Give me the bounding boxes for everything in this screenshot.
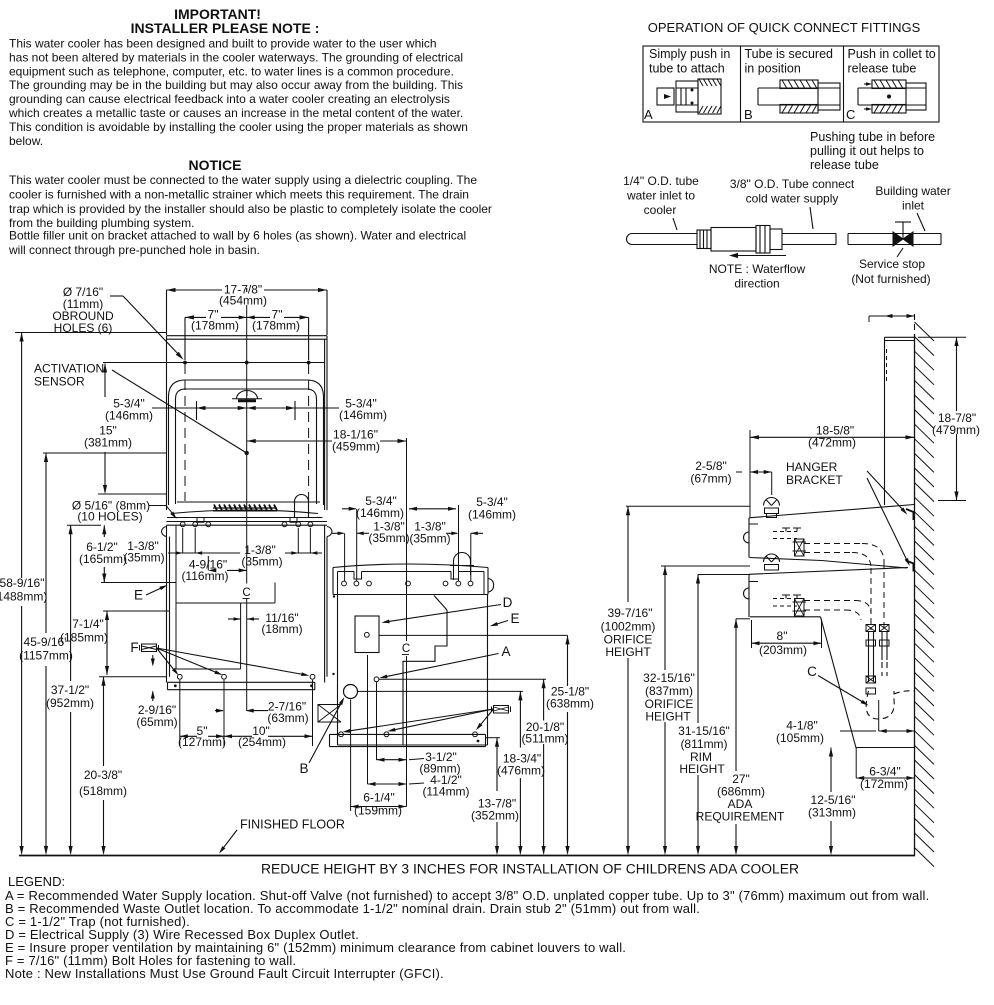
dim 6-1/2 (165mm) <box>103 525 105 537</box>
waterflow direction arrow <box>734 255 786 257</box>
svg-text:8": 8" <box>777 629 788 643</box>
ext line front bottom corner <box>751 620 753 648</box>
svg-text:Service stop: Service stop <box>859 257 925 271</box>
ext from drain B down <box>350 700 352 812</box>
hole centerline dashed right <box>308 364 310 501</box>
dim 18-5/8 (472mm) <box>750 436 915 438</box>
svg-text:(Not furnished): (Not furnished) <box>851 272 930 286</box>
svg-text:39-7/16": 39-7/16" <box>608 606 653 620</box>
leaders from F right to plate holes <box>345 709 494 732</box>
svg-text:REQUIREMENT: REQUIREMENT <box>696 810 785 824</box>
dim 37-1/2 (952mm) <box>70 525 72 681</box>
svg-text:(35mm): (35mm) <box>123 551 164 565</box>
panel outline <box>167 335 328 337</box>
lower unit tubing dashed <box>804 600 855 602</box>
bracket holes bottle filler <box>177 674 182 679</box>
dim 3-1/2 (89mm) <box>377 759 407 761</box>
dim 31-15/16 rim height <box>697 575 699 724</box>
dim 1-3/8 cooler left pair <box>332 532 344 534</box>
svg-text:LEGEND:: LEGEND: <box>8 874 65 889</box>
svg-text:OPERATION OF QUICK CONNECT FIT: OPERATION OF QUICK CONNECT FITTINGS <box>648 20 921 35</box>
upper unit tubing dashed <box>804 543 862 545</box>
svg-text:(352mm): (352mm) <box>471 809 519 823</box>
drain shelf line <box>856 747 914 749</box>
drain outlet B circle <box>344 685 358 699</box>
svg-text:inlet: inlet <box>902 199 925 213</box>
ext drain pipe down <box>878 700 880 731</box>
svg-text:NOTE : Waterflow: NOTE : Waterflow <box>709 262 806 276</box>
dim 11/16 (18mm) <box>228 618 241 620</box>
svg-text:(837mm): (837mm) <box>645 684 693 698</box>
svg-text:Simply push in: Simply push in <box>649 47 730 61</box>
dim 20-1/8 (511mm) <box>543 679 545 720</box>
dim 15 inch (381mm) <box>104 364 106 398</box>
svg-text:(811mm): (811mm) <box>680 737 727 751</box>
dim 4-1/8 (105mm) <box>879 730 915 732</box>
dim 1-3/8 cooler right pair <box>446 532 457 534</box>
svg-text:Building water: Building water <box>875 184 950 198</box>
ext line ada <box>736 618 750 620</box>
svg-text:equipment such as telephone, c: equipment such as telephone, computer, e… <box>9 64 454 78</box>
leaders from F to bracket holes <box>157 648 177 673</box>
cooler centerline <box>406 438 408 641</box>
svg-text:(146mm): (146mm) <box>339 408 387 422</box>
cabinet bottom edge line <box>99 676 167 678</box>
svg-text:(105mm): (105mm) <box>776 731 824 745</box>
finished floor line <box>19 855 915 857</box>
dim 32-15/16 orifice height <box>664 566 666 670</box>
dim 8 inch (203mm) <box>752 642 822 644</box>
cooler hanger bracket <box>333 564 488 568</box>
inline fitting body <box>697 230 711 249</box>
svg-text:(63mm): (63mm) <box>267 711 308 725</box>
svg-text:A: A <box>644 107 653 122</box>
svg-text:(1157mm): (1157mm) <box>19 649 73 663</box>
svg-text:Tube is secured: Tube is secured <box>745 47 834 61</box>
basin drain grille <box>214 505 217 511</box>
electrical box D <box>355 616 379 653</box>
lower bubbler side view <box>764 554 780 562</box>
svg-text:(146mm): (146mm) <box>105 409 153 423</box>
cooler plate holes <box>339 732 344 737</box>
leader dia 5/16 <box>149 505 166 507</box>
svg-text:which creates a metallic taste: which creates a metallic taste or causes… <box>8 106 463 120</box>
dim 13-7/8 (352mm) <box>496 738 498 791</box>
leader to inlet tube <box>917 213 925 231</box>
dim 25-1/8 (638mm) <box>567 635 569 686</box>
svg-text:E: E <box>134 588 143 603</box>
svg-text:(35mm): (35mm) <box>241 555 282 569</box>
svg-text:(178mm): (178mm) <box>252 319 300 333</box>
svg-text:(454mm): (454mm) <box>219 294 267 308</box>
svg-text:(178mm): (178mm) <box>191 319 239 333</box>
basin side bolt right <box>327 527 332 537</box>
svg-text:(313mm): (313mm) <box>808 806 856 820</box>
leader to cooler tube <box>673 218 677 230</box>
dim 18-1/16 (459mm) <box>247 440 332 442</box>
dim 45-9/16 (1157mm) <box>45 453 47 633</box>
upper valve stack <box>795 539 805 556</box>
wall hatching <box>915 322 935 341</box>
ext lines to 5 and 10 dims <box>179 680 181 746</box>
svg-text:This water cooler must be conn: This water cooler must be connected to t… <box>9 173 477 187</box>
dim 7-1/4 (185mm) <box>106 611 108 675</box>
svg-text:(165mm): (165mm) <box>79 552 127 566</box>
svg-text:45-9/16": 45-9/16" <box>24 635 69 649</box>
svg-text:(116mm): (116mm) <box>181 569 228 583</box>
svg-text:(952mm): (952mm) <box>46 696 94 710</box>
dim 7 inch right <box>247 316 270 318</box>
svg-text:Bottle filler unit on bracket: Bottle filler unit on bracket attached t… <box>9 229 466 243</box>
ext line louver top <box>101 582 176 584</box>
ext line drain B height <box>358 690 523 692</box>
svg-text:This condition is avoidable by: This condition is avoidable by installin… <box>9 120 468 134</box>
svg-text:6-1/4": 6-1/4" <box>363 791 395 805</box>
svg-text:(476mm): (476mm) <box>497 764 545 778</box>
svg-text:FINISHED FLOOR: FINISHED FLOOR <box>240 818 345 832</box>
leader obround holes <box>110 295 123 297</box>
dim 6-3/4 (172mm) <box>856 777 914 779</box>
activation sensor dome <box>237 391 258 400</box>
svg-text:(638mm): (638mm) <box>546 697 594 711</box>
ext line orifice lower <box>661 565 750 567</box>
dim 5 inch (127mm) <box>180 735 197 737</box>
leaders hanger bracket <box>867 471 906 513</box>
dim row basin holes 1-3/8 <box>168 552 240 554</box>
dim 5-3/4 right of sensor <box>247 407 295 409</box>
svg-text:INSTALLER PLEASE NOTE :: INSTALLER PLEASE NOTE : <box>131 20 320 36</box>
svg-text:cooler is furnished with a non: cooler is furnished with a non-metallic … <box>9 187 469 201</box>
svg-text:32-15/16": 32-15/16" <box>643 671 695 685</box>
cooler right side bolt <box>488 579 494 593</box>
upper unit knob <box>744 532 750 543</box>
svg-text:BRACKET: BRACKET <box>786 473 843 487</box>
svg-text:(67mm): (67mm) <box>690 472 731 486</box>
recess opening outer <box>169 380 324 505</box>
svg-text:will connect through pre-punch: will connect through pre-punched hole in… <box>8 243 260 257</box>
bottle filler centerline <box>246 305 248 584</box>
hole centerline dashed left <box>184 364 186 501</box>
leader service stop <box>897 248 903 257</box>
svg-text:(1002mm): (1002mm) <box>601 620 656 634</box>
svg-text:HEIGHT: HEIGHT <box>679 762 725 776</box>
svg-text:58-9/16": 58-9/16" <box>0 576 44 590</box>
svg-text:SENSOR: SENSOR <box>34 375 85 389</box>
ext bubbler center <box>771 472 773 495</box>
ext dashed from A hole down <box>376 682 378 761</box>
dim 20-3/8 (518mm) <box>103 677 105 766</box>
wall bracket hooks <box>906 509 914 520</box>
svg-text:ACTIVATION: ACTIVATION <box>34 362 104 376</box>
svg-text:D: D <box>503 595 513 610</box>
bottle filler bubbler <box>295 495 309 517</box>
svg-text:grounding can cause electrical: grounding can cause electrical feedback … <box>9 92 450 106</box>
svg-text:release tube: release tube <box>848 62 917 76</box>
ext line basin rim left <box>67 524 101 526</box>
dim 17-7/8 (454mm) overall width <box>167 289 223 291</box>
svg-text:direction: direction <box>734 277 779 291</box>
basin side bolt left <box>162 527 167 537</box>
ext line rim lower <box>698 574 750 576</box>
lower unit bottom <box>750 616 821 618</box>
hole A on cooler <box>374 677 379 682</box>
ext line A hole height <box>379 678 546 680</box>
svg-text:C: C <box>846 107 855 122</box>
svg-text:7-1/4": 7-1/4" <box>72 617 104 631</box>
svg-text:Push in collet to: Push in collet to <box>848 47 936 61</box>
recess opening inner <box>176 389 317 504</box>
svg-text:1/4" O.D. tube: 1/4" O.D. tube <box>623 174 699 188</box>
ext line orifice upper <box>626 505 750 507</box>
svg-text:E: E <box>510 611 519 626</box>
svg-text:(18mm): (18mm) <box>261 622 302 636</box>
lower unit knob <box>744 588 750 599</box>
svg-text:C: C <box>807 664 817 679</box>
tube left segment <box>632 233 697 235</box>
cell C fitting drawing <box>858 87 926 89</box>
svg-text:pulling it out helps to: pulling it out helps to <box>810 144 924 158</box>
dim 4-1/2 (114mm) <box>368 783 407 785</box>
svg-text:20-3/8": 20-3/8" <box>84 768 122 782</box>
upper unit top slant <box>749 505 914 518</box>
lower unit top slant <box>749 568 908 575</box>
cell B fitting drawing <box>758 87 840 89</box>
svg-text:(127mm): (127mm) <box>178 735 226 749</box>
cooler bottom plate <box>330 733 486 735</box>
cooler cabinet <box>337 595 339 746</box>
dim 5-3/4 left of sensor <box>152 407 197 409</box>
upper unit bottom <box>750 558 822 561</box>
basin mounting holes row <box>180 522 185 527</box>
lower valve stack <box>795 599 805 617</box>
svg-text:(459mm): (459mm) <box>332 440 380 454</box>
cabinet sides bottle filler <box>166 525 168 682</box>
quick connect box frame <box>643 46 939 122</box>
svg-text:The grounding may be in the bu: The grounding may be in the building but… <box>9 78 463 92</box>
trap fittings <box>866 625 876 632</box>
cooler bracket holes <box>342 581 347 586</box>
svg-text:(381mm): (381mm) <box>84 436 132 450</box>
svg-text:(172mm): (172mm) <box>860 777 908 791</box>
ext from electrical box down <box>367 655 369 784</box>
stepped trap line in cooler <box>434 596 447 611</box>
ext line sensor height <box>43 452 167 454</box>
svg-text:A: A <box>501 644 510 659</box>
svg-text:has not been altered by materi: has not been altered by materials in the… <box>9 50 463 64</box>
svg-text:water inlet to: water inlet to <box>626 189 695 203</box>
leader to supply tube <box>810 207 813 229</box>
obround hole row <box>103 362 325 364</box>
trap S-bend dashed <box>866 691 894 719</box>
svg-text:Pushing tube in before: Pushing tube in before <box>810 130 935 144</box>
svg-text:REDUCE HEIGHT BY 3 INCHES FOR: REDUCE HEIGHT BY 3 INCHES FOR INSTALLATI… <box>261 862 799 877</box>
svg-text:(10 HOLES): (10 HOLES) <box>77 510 142 524</box>
svg-text:Note : New Installations Must: Note : New Installations Must Use Ground… <box>5 966 444 981</box>
leader activation sensor <box>112 370 245 452</box>
dim 2-5/8 (67mm) <box>750 471 772 473</box>
dim 6-1/4 (159mm) <box>351 806 407 808</box>
svg-text:37-1/2": 37-1/2" <box>51 683 89 697</box>
label F right with bolt icon <box>494 706 509 714</box>
top small dim at wall <box>869 315 915 317</box>
svg-text:F: F <box>130 640 138 655</box>
svg-text:(146mm): (146mm) <box>468 508 516 522</box>
upper unit strainer dashed <box>773 531 797 533</box>
dim 2-7/16 (63mm) <box>215 710 223 712</box>
svg-text:(1488mm): (1488mm) <box>0 590 47 604</box>
waste stub outline <box>318 705 341 723</box>
dim 10 inch (254mm) <box>224 735 252 737</box>
building inlet tube <box>848 233 941 235</box>
dim 27 ada requirement <box>735 619 737 771</box>
wall line <box>914 314 916 334</box>
basin of bottle filler <box>177 501 320 503</box>
ext line plate corner height <box>486 737 501 739</box>
dim 39-7/16 orifice height <box>627 506 629 602</box>
svg-text:(65mm): (65mm) <box>136 715 177 729</box>
svg-text:in position: in position <box>745 62 801 76</box>
lower unit front face <box>748 574 750 617</box>
svg-text:release tube: release tube <box>810 158 879 172</box>
svg-text:HANGER: HANGER <box>786 460 838 474</box>
cooler bubbler <box>454 553 471 566</box>
lower unit slant to drain <box>821 617 857 749</box>
svg-text:(203mm): (203mm) <box>759 643 807 657</box>
dim 12-5/16 (313mm) <box>830 748 832 793</box>
svg-text:HEIGHT: HEIGHT <box>605 645 651 659</box>
svg-text:(518mm): (518mm) <box>79 784 127 798</box>
tube right of fitting <box>782 233 836 235</box>
service stop valve symbol <box>893 232 903 246</box>
ext line louver mid <box>103 610 170 612</box>
svg-text:(159mm): (159mm) <box>354 804 402 818</box>
dim 5-3/4 cooler right <box>409 508 456 510</box>
upper unit front face <box>748 518 750 558</box>
svg-text:(35mm): (35mm) <box>368 531 409 545</box>
svg-text:below.: below. <box>9 134 43 148</box>
dim 58-9/16 (1488mm) <box>21 333 23 579</box>
svg-text:(254mm): (254mm) <box>238 735 286 749</box>
svg-text:(472mm): (472mm) <box>808 436 856 450</box>
cell A fitting drawing <box>657 88 674 105</box>
svg-text:3/8" O.D. Tube connect: 3/8" O.D. Tube connect <box>730 177 855 191</box>
lower unit strainer dashed <box>773 598 797 600</box>
dim 7 inch left <box>185 316 206 318</box>
dim 4-9/16 (116mm) <box>227 569 247 571</box>
svg-text:31-15/16": 31-15/16" <box>678 724 730 738</box>
svg-text:trap which is provided by the: trap which is provided by the installer … <box>9 202 492 216</box>
svg-text:(479mm): (479mm) <box>932 423 980 437</box>
bottom bracket plate bottle filler <box>168 681 315 683</box>
svg-text:C: C <box>402 643 410 655</box>
ext line electrical height <box>379 634 568 636</box>
svg-text:C: C <box>242 587 250 599</box>
svg-text:NOTICE: NOTICE <box>189 157 242 173</box>
ext line panel top <box>15 332 167 334</box>
ext line bottom obround row <box>98 493 167 495</box>
ext line front face upper <box>749 430 751 517</box>
svg-text:(35mm): (35mm) <box>409 532 450 546</box>
svg-text:(114mm): (114mm) <box>422 785 469 799</box>
svg-text:B: B <box>299 761 308 776</box>
dim 18-7/8 (479mm) <box>956 337 958 411</box>
svg-text:cold water supply: cold water supply <box>746 192 839 206</box>
svg-text:B: B <box>744 107 753 122</box>
dim 18-3/4 (476mm) <box>519 691 521 747</box>
upper bubbler side view <box>764 498 780 506</box>
dim 5-3/4 cooler left <box>342 508 356 510</box>
dim 2-9/16 (65mm) <box>152 655 154 665</box>
svg-text:(146mm): (146mm) <box>356 506 404 520</box>
svg-text:cooler: cooler <box>644 203 677 217</box>
louver panel <box>176 602 241 604</box>
svg-text:HEIGHT: HEIGHT <box>645 710 691 724</box>
trap pipes <box>868 632 870 682</box>
svg-text:This water cooler has been des: This water cooler has been designed and … <box>9 37 437 51</box>
svg-text:(511mm): (511mm) <box>521 732 568 746</box>
mounting plate on wall <box>884 337 886 505</box>
svg-text:tube to attach: tube to attach <box>649 62 725 76</box>
plate slots dashed <box>886 349 888 381</box>
